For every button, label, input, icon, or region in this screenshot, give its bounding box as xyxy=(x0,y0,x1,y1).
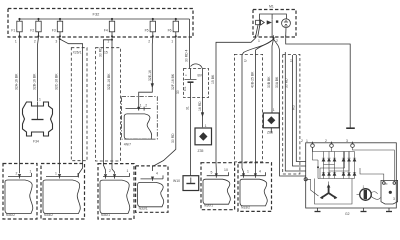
svg-text:F4: F4 xyxy=(104,29,108,33)
alternator G2 box xyxy=(306,143,397,208)
svg-text:1: 1 xyxy=(306,139,308,143)
G2 stator enclosure xyxy=(315,179,353,205)
component M1 box xyxy=(253,10,296,38)
component N34/2 box xyxy=(41,164,85,220)
solder connector Z05 box xyxy=(195,124,212,145)
svg-text:N33/1: N33/1 xyxy=(139,206,148,210)
chassis ground xyxy=(346,127,355,129)
N30/1 connector body (wavy) xyxy=(203,179,230,204)
svg-text:1: 1 xyxy=(39,98,41,102)
svg-text:32A-16 BK: 32A-16 BK xyxy=(15,73,19,90)
svg-text:F5: F5 xyxy=(145,29,149,33)
svg-text:32C-16 BK: 32C-16 BK xyxy=(55,73,59,90)
wire fuse F6 to N33/1 xyxy=(153,37,176,171)
G2 stator connections xyxy=(306,179,329,196)
svg-text:4N/7: 4N/7 xyxy=(124,143,131,147)
wire to alternator (4) xyxy=(296,55,305,162)
fuse F2 xyxy=(30,18,41,44)
svg-text:16 RD: 16 RD xyxy=(198,101,202,111)
fuse F5 xyxy=(145,18,156,44)
solder connector Z85 box xyxy=(263,113,279,128)
fuse F1 xyxy=(11,18,22,44)
svg-text:4: 4 xyxy=(259,170,261,174)
wire battery plus to solder point Z05 xyxy=(191,64,203,127)
G2 top terminals xyxy=(306,139,354,147)
N33/2 connector body (wavy) xyxy=(240,179,267,206)
svg-text:30 RD: 30 RD xyxy=(171,133,175,143)
wire to solder point Z85 xyxy=(271,52,273,113)
component N30/1 box xyxy=(201,163,235,210)
fuse box F32 outline xyxy=(8,9,193,38)
N30/2 connector body (wavy) xyxy=(5,180,33,214)
N33/2 terminal bar xyxy=(240,170,265,178)
Z85 bottom stub wire xyxy=(270,128,272,133)
svg-text:+: + xyxy=(185,74,187,78)
wire fuse F4 branch to N30/1 left xyxy=(103,37,112,174)
N30/1 terminal bar xyxy=(103,169,130,179)
svg-text:N33/2: N33/2 xyxy=(241,205,250,209)
component N33/2 box xyxy=(238,163,272,212)
connector housing 4N/7 box xyxy=(122,97,158,140)
svg-text:30 RD: 30 RD xyxy=(99,47,103,57)
wire fuse F1 to N30/2 xyxy=(19,37,21,173)
G2 left terminal xyxy=(304,178,307,181)
battery G1 box xyxy=(184,69,209,98)
svg-text:5: 5 xyxy=(211,171,213,175)
ground point W10 box xyxy=(183,176,199,191)
wire bus to battery G1 (terminal 30) xyxy=(189,19,191,69)
M1 terminals xyxy=(255,35,285,43)
fuse F6 xyxy=(168,18,179,44)
svg-text:BV: BV xyxy=(198,74,203,78)
G2 diode bridge xyxy=(313,147,355,178)
wire fuse F3 to N34/2 xyxy=(59,37,62,174)
svg-text:1: 1 xyxy=(171,40,173,44)
svg-text:30: 30 xyxy=(176,90,180,94)
cable duct D xyxy=(283,54,300,174)
component N30/1 box xyxy=(98,164,134,219)
component N33/1 box xyxy=(136,166,168,212)
4N/7 connector body (wavy) xyxy=(124,114,151,139)
component N30/2 box xyxy=(3,164,37,220)
wire fuse F5 to connector 4N/7 xyxy=(139,37,153,109)
fuse F4 xyxy=(104,18,115,44)
svg-text:30 RD: 30 RD xyxy=(285,78,289,88)
svg-text:2: 2 xyxy=(148,40,150,44)
svg-text:1: 1 xyxy=(363,185,365,189)
G2 regulator wiring xyxy=(353,147,395,181)
G2 ground stubs xyxy=(315,208,393,212)
svg-text:G2: G2 xyxy=(345,212,350,216)
svg-text:30 RD 4: 30 RD 4 xyxy=(185,49,189,62)
svg-text:1: 1 xyxy=(247,170,249,174)
svg-text:RD: RD xyxy=(292,105,296,110)
cable duct X26/1 xyxy=(71,48,87,161)
svg-text:15: 15 xyxy=(104,51,108,55)
svg-text:N30/1: N30/1 xyxy=(101,213,110,217)
svg-text:2: 2 xyxy=(301,139,303,143)
N30/1 connector body (wavy) xyxy=(100,180,130,213)
svg-text:M1: M1 xyxy=(269,5,274,9)
svg-text:2: 2 xyxy=(145,104,147,108)
fuse element F34 (castellated symbol) xyxy=(23,102,53,136)
svg-text:1: 1 xyxy=(55,172,57,176)
svg-text:F32: F32 xyxy=(93,12,101,17)
svg-text:F1: F1 xyxy=(11,29,15,33)
svg-text:1: 1 xyxy=(127,169,129,173)
connector arrow on wire xyxy=(151,84,154,88)
cable duct C xyxy=(234,54,262,161)
G2 diodes xyxy=(322,158,356,175)
svg-text:2: 2 xyxy=(16,172,18,176)
bus wire (terminal 30) inside fuse box xyxy=(20,18,190,20)
svg-text:4: 4 xyxy=(156,172,158,176)
wire to alternator (3) xyxy=(293,55,306,166)
svg-text:30A BK: 30A BK xyxy=(275,76,279,88)
svg-text:2: 2 xyxy=(34,40,36,44)
N33/1 connector body (wavy) xyxy=(138,182,164,206)
wire fuse F2 to fuse element F34 xyxy=(38,32,39,102)
svg-text:31: 31 xyxy=(186,106,190,110)
fuse F3 xyxy=(52,18,63,44)
N34/2 connector body (wavy) xyxy=(43,180,80,214)
svg-text:F6: F6 xyxy=(168,29,172,33)
svg-text:15 BK: 15 BK xyxy=(211,74,215,84)
branch wire F3 to duct and N34/2 right terminal xyxy=(59,38,61,40)
wire to alternator (1) xyxy=(280,52,306,176)
svg-text:1X: 1X xyxy=(224,168,229,172)
G2 regulator (brush holder) xyxy=(381,180,398,204)
svg-text:1: 1 xyxy=(273,108,275,112)
wire M1 terminal 3 down xyxy=(286,38,351,128)
wire fuse F4 to N30/1 xyxy=(112,40,115,174)
svg-text:W10: W10 xyxy=(173,179,180,183)
svg-text:32D-16 BK: 32D-16 BK xyxy=(107,73,111,90)
svg-text:G1: G1 xyxy=(183,86,187,91)
svg-text:1: 1 xyxy=(140,104,142,108)
N33/1 terminal bar xyxy=(141,172,164,181)
svg-text:3: 3 xyxy=(55,40,57,44)
svg-text:F3: F3 xyxy=(52,29,56,33)
svg-text:N34/2: N34/2 xyxy=(44,213,53,217)
N30/2 terminal bar xyxy=(8,170,32,179)
svg-text:40B-25 BK: 40B-25 BK xyxy=(251,71,255,88)
svg-text:N30/1: N30/1 xyxy=(204,204,213,208)
svg-text:F2: F2 xyxy=(30,29,34,33)
N30/1 terminal bar xyxy=(207,168,229,178)
M1 internal circuit xyxy=(256,14,291,37)
svg-text:32E-16: 32E-16 xyxy=(148,70,152,81)
wire to alternator (2) xyxy=(285,52,305,171)
svg-text:X26/1: X26/1 xyxy=(73,51,82,55)
G2 stator windings (star) xyxy=(322,186,336,198)
connector arrow on wire xyxy=(201,113,204,117)
svg-text:30B BK: 30B BK xyxy=(267,76,271,88)
svg-text:1: 1 xyxy=(258,39,260,43)
svg-text:3: 3 xyxy=(393,197,395,201)
svg-text:N30/2: N30/2 xyxy=(6,213,15,217)
wire to N33/2 terminal 1 xyxy=(242,55,244,175)
svg-text:1: 1 xyxy=(205,124,207,128)
svg-text:Z35: Z35 xyxy=(198,149,204,153)
svg-text:2: 2 xyxy=(325,139,327,143)
svg-text:b: b xyxy=(386,182,388,186)
svg-text:1: 1 xyxy=(15,40,17,44)
cable duct B xyxy=(96,48,121,161)
wire fan M1 terminal 2 xyxy=(256,39,274,52)
svg-text:F34: F34 xyxy=(33,140,39,144)
svg-text:3: 3 xyxy=(346,139,348,143)
wire to N33/2 terminal 2 xyxy=(254,52,256,175)
svg-text:Z85: Z85 xyxy=(267,131,273,135)
battery G1 symbol xyxy=(185,69,203,98)
4N/7 terminal bar xyxy=(126,104,151,111)
N34/2 terminal bar xyxy=(46,172,78,179)
svg-text:32B-16 BK: 32B-16 BK xyxy=(33,73,37,90)
svg-text:32F-16 BK: 32F-16 BK xyxy=(171,73,175,90)
svg-text:2: 2 xyxy=(109,169,111,173)
wire battery minus to ground W10 xyxy=(190,98,192,176)
svg-text:1: 1 xyxy=(30,170,32,174)
wire M1 terminal 1 to N30/1 xyxy=(216,38,255,173)
G2 rotor (slip rings) xyxy=(357,185,381,200)
